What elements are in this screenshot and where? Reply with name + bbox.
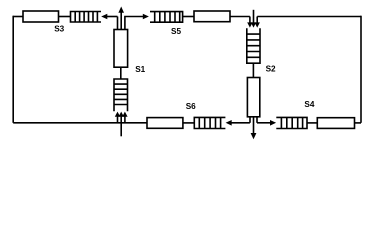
svg-text:S6: S6 <box>186 102 196 111</box>
external arrival arrow into queue S2 top <box>251 10 256 28</box>
wire top-right segment <box>257 16 361 18</box>
svg-text:S2: S2 <box>266 64 276 73</box>
svg-text:S3: S3 <box>54 24 64 33</box>
arrow into queue S3 <box>101 14 117 20</box>
arrow into queue S4 <box>270 120 276 126</box>
external departure arrow from server S1 <box>118 7 124 30</box>
queue S2 (open at top entrance) <box>247 28 260 63</box>
svg-text:S5: S5 <box>171 27 181 36</box>
wire bottom-right segment <box>355 122 362 124</box>
junction arrow left into queue S1 bottom <box>115 112 120 123</box>
svg-text:S4: S4 <box>304 100 314 109</box>
junction leg left at server S2 bottom <box>249 117 251 123</box>
wire queue S4 to server S4 <box>307 122 317 124</box>
junction arrow right into queue S1 bottom <box>122 112 127 123</box>
wire left edge <box>12 16 14 123</box>
svg-text:S1: S1 <box>135 65 145 74</box>
server S2 <box>247 78 259 117</box>
wire server S1 to queue S1 <box>120 67 122 79</box>
junction elbow right at server S1 top <box>125 17 143 30</box>
queue S3 (open at right entrance) <box>71 12 102 23</box>
junction arrow left into queue S2 top <box>247 17 252 28</box>
server S1 <box>114 30 128 68</box>
junction leg right at server S2 bottom <box>256 117 258 123</box>
junction arrow right into queue S2 top <box>255 17 260 28</box>
server S6 <box>147 118 183 129</box>
wire junction S2 to arrow S4 <box>257 122 271 124</box>
arrow into queue S5 <box>143 14 149 20</box>
server S4 <box>317 118 354 129</box>
queue S5 (open at left entrance) <box>150 12 183 23</box>
wire queue S2 to server S2 <box>252 63 254 77</box>
queue S6 (open at right entrance) <box>194 117 225 128</box>
wire top-left segment <box>13 16 23 18</box>
wire server S3 to queue S3 <box>59 16 71 18</box>
server S5 <box>194 11 230 22</box>
arrow into queue S6 <box>226 120 232 126</box>
queue S1 (open at bottom entrance) <box>114 79 128 111</box>
wire bottom-left segment <box>13 122 147 124</box>
external arrival arrow into queue S1 bottom <box>119 112 124 137</box>
wire right edge <box>360 16 362 123</box>
wire queue S5 to server S5 <box>183 16 194 18</box>
queue S4 (open at left entrance) <box>276 117 307 128</box>
wire server S6 to queue S6 <box>183 122 194 124</box>
wire server S5 to junction S2 <box>230 16 250 18</box>
server S3 <box>23 11 59 22</box>
wire junction S2 to arrow S6 <box>231 122 250 124</box>
junction elbow left at server S1 top <box>117 17 119 30</box>
external departure arrow from server S2 <box>251 117 257 140</box>
